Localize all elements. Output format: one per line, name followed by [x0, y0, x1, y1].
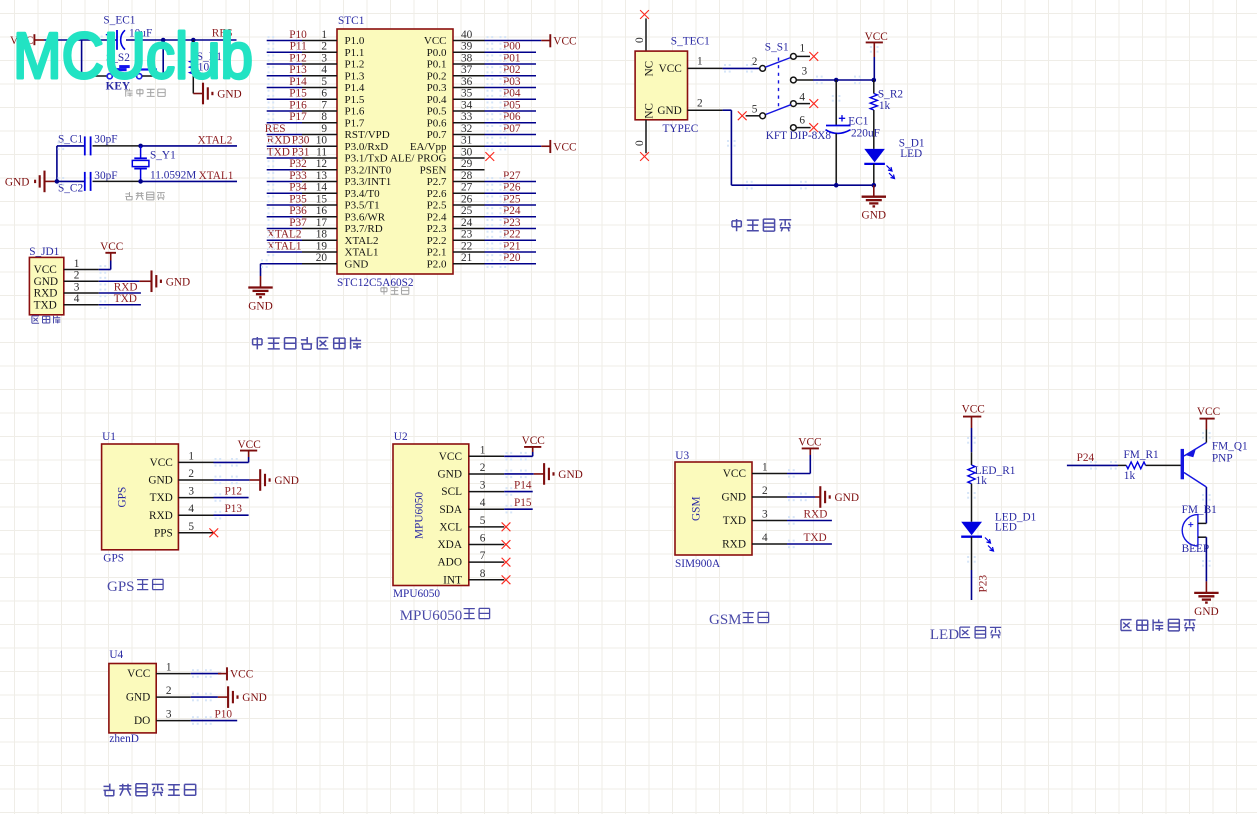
svg-text:VCC: VCC — [962, 404, 985, 416]
svg-text:P2.1: P2.1 — [427, 247, 447, 259]
compile marks (decorative wire check dots) — [58, 36, 1211, 725]
svg-text:EA/Vpp: EA/Vpp — [410, 141, 447, 153]
svg-text:P2.3: P2.3 — [427, 223, 447, 235]
pin 2 (P1.1) of STC1 — [302, 41, 364, 59]
svg-text:20: 20 — [316, 252, 328, 264]
svg-text:MPU6050: MPU6050 — [393, 588, 440, 600]
pin 33 (P0.6) of STC1 — [427, 111, 485, 129]
svg-text:RXD: RXD — [804, 509, 828, 521]
wire — [485, 239, 537, 241]
pin 2 (GND) of U1 — [148, 468, 213, 487]
wire VCC to node — [873, 57, 875, 80]
svg-text:4: 4 — [762, 532, 768, 544]
wire — [267, 63, 302, 65]
wire — [485, 122, 537, 124]
wire — [267, 204, 302, 206]
svg-text:XCL: XCL — [439, 521, 462, 533]
power port VCC (U4) — [226, 667, 228, 680]
no-connect X (pin30) — [485, 152, 494, 161]
pin 17 (P3.7/RD) of STC1 — [302, 217, 383, 235]
power port VCC (S_JD1) — [100, 241, 123, 261]
ground GND (crystal) — [5, 171, 57, 193]
junction node at R2 — [872, 78, 877, 83]
wire buzzer to GND — [1205, 537, 1207, 581]
svg-text:P25: P25 — [503, 193, 521, 205]
svg-text:2: 2 — [321, 41, 327, 53]
svg-text:11: 11 — [316, 146, 327, 158]
svg-text:P1.1: P1.1 — [345, 47, 365, 59]
svg-text:U2: U2 — [394, 431, 408, 443]
svg-text:P0.6: P0.6 — [427, 117, 447, 129]
pin 4 (SDA) of U2 — [439, 497, 504, 516]
svg-text:2: 2 — [166, 685, 172, 697]
svg-text:SCL: SCL — [441, 486, 462, 498]
svg-text:28: 28 — [461, 170, 473, 182]
wire — [267, 169, 302, 171]
svg-text:MPU6050: MPU6050 — [414, 492, 426, 539]
wire pin1 to VCC — [504, 452, 533, 456]
svg-text:EC1: EC1 — [848, 116, 868, 128]
module U3 GSM body — [675, 450, 752, 570]
pin 0 (bottom) of S_TEC1 — [634, 120, 646, 153]
wire pin1 to VCC — [214, 457, 249, 462]
svg-text:19: 19 — [316, 240, 328, 252]
caption 震动检测模块 (vibration detect module) — [104, 784, 115, 796]
svg-text:P1.3: P1.3 — [345, 70, 365, 82]
pin 28 (P2.7) of STC1 — [427, 170, 485, 188]
wire — [485, 263, 537, 265]
wire pin1 to VCC — [191, 673, 222, 675]
wire S_C2 to crystal node XTAL1 — [93, 180, 141, 182]
wire — [485, 63, 537, 65]
wire net XTAL1 — [141, 180, 237, 182]
pin 31 (EA/Vpp) of STC1 — [410, 135, 485, 153]
resistor S_R1 10k — [190, 40, 222, 94]
wire net P14 — [504, 491, 533, 493]
wire to capacitor S_C2 — [57, 180, 85, 182]
wire resistor to transistor base — [1146, 464, 1181, 466]
svg-text:10: 10 — [316, 135, 328, 147]
power port VCC (U3) — [798, 437, 821, 455]
svg-text:7: 7 — [480, 550, 486, 562]
pin 1 (VCC) of U2 — [439, 444, 504, 463]
wire pin40 to VCC — [485, 40, 542, 42]
svg-text:GPS: GPS — [117, 487, 129, 508]
no-connect X (S_S1 pin4) — [809, 99, 818, 108]
svg-text:P3.5/T1: P3.5/T1 — [345, 200, 380, 212]
svg-text:P22: P22 — [503, 229, 521, 241]
svg-text:VCC: VCC — [659, 63, 682, 75]
pin 23 (P2.2) of STC1 — [427, 229, 485, 247]
label 下载口 (download port) — [32, 316, 39, 323]
svg-text:P37: P37 — [289, 217, 307, 229]
buzzer FM_B1 BEEP — [1182, 504, 1217, 555]
junction node ground rail at LED — [872, 183, 877, 188]
svg-text:GSM: GSM — [691, 497, 703, 522]
label 晶振电路 (crystal circuit) — [125, 192, 132, 200]
svg-text:P33: P33 — [289, 170, 307, 182]
junction node ground rail at EC1 — [834, 183, 839, 188]
svg-text:P13: P13 — [225, 503, 243, 515]
svg-text:TXD: TXD — [267, 146, 290, 158]
svg-text:U3: U3 — [675, 450, 689, 462]
svg-text:VCC: VCC — [100, 241, 123, 253]
power port VCC (U2) — [522, 435, 545, 452]
svg-text:FM_R1: FM_R1 — [1124, 449, 1159, 461]
svg-text:P2.6: P2.6 — [427, 188, 447, 200]
svg-text:26: 26 — [461, 193, 473, 205]
wire P24 to resistor — [1067, 464, 1126, 466]
svg-text:P1.7: P1.7 — [345, 117, 365, 129]
op-amp U? none; MCU STC1 body — [337, 15, 453, 289]
svg-text:RXD: RXD — [267, 135, 291, 147]
wire — [267, 145, 302, 147]
wire — [267, 228, 302, 230]
ground GND (U1) — [250, 469, 299, 491]
svg-text:27: 27 — [461, 182, 473, 194]
svg-text:GND: GND — [274, 475, 298, 487]
label 按键复位 (key reset) — [126, 89, 133, 97]
wire — [267, 87, 302, 89]
svg-text:LED: LED — [995, 522, 1017, 534]
svg-text:30: 30 — [461, 146, 473, 158]
svg-text:MCUclub: MCUclub — [13, 19, 253, 92]
pin 39 (P0.0) of STC1 — [427, 41, 485, 59]
ground GND (buzzer) — [1205, 581, 1207, 593]
pin 15 (P3.5/T1) of STC1 — [302, 193, 380, 211]
pin 32 (P0.7) of STC1 — [427, 123, 485, 141]
svg-text:P26: P26 — [503, 182, 521, 194]
module U2 MPU6050 body — [393, 431, 469, 600]
svg-text:1: 1 — [480, 444, 486, 456]
svg-text:P1.5: P1.5 — [345, 94, 365, 106]
transistor FM_Q1 PNP — [1181, 441, 1248, 487]
svg-text:VCC: VCC — [34, 264, 57, 276]
svg-text:39: 39 — [461, 41, 473, 53]
wire — [485, 228, 537, 230]
svg-text:P07: P07 — [503, 123, 521, 135]
svg-text:36: 36 — [461, 76, 473, 88]
svg-text:37: 37 — [461, 64, 473, 76]
svg-text:32: 32 — [461, 123, 473, 135]
crystal S_Y1 11.0592M — [132, 146, 196, 182]
pin 11 (P3.1/TxD) of STC1 — [302, 146, 388, 164]
pin 1 (VCC) of U1 — [150, 450, 214, 469]
pin 5 (XCL) of U2 — [439, 515, 504, 534]
svg-text:8: 8 — [321, 111, 327, 123]
svg-text:P2.0: P2.0 — [427, 258, 447, 270]
pin 3 (TXD) of U1 — [150, 486, 214, 505]
wire resistor to LED — [971, 484, 973, 522]
pin 27 (P2.6) of STC1 — [427, 182, 485, 200]
wire pin31 to VCC — [485, 145, 542, 147]
svg-text:VCC: VCC — [798, 437, 821, 449]
svg-text:P05: P05 — [503, 99, 521, 111]
switch S_S1 KFT DIP-8X8 — [746, 42, 832, 142]
svg-text:22: 22 — [461, 240, 473, 252]
svg-text:P06: P06 — [503, 111, 521, 123]
svg-text:P2.5: P2.5 — [427, 200, 447, 212]
svg-text:GND: GND — [345, 258, 369, 270]
svg-text:XTAL1: XTAL1 — [199, 170, 234, 182]
svg-text:GND: GND — [248, 301, 272, 313]
svg-text:TXD: TXD — [150, 492, 173, 504]
caption GSM模块 (GSM module) — [709, 612, 769, 628]
pin 18 (XTAL2) of STC1 — [302, 229, 378, 247]
svg-text:TXD: TXD — [723, 515, 746, 527]
svg-text:VCC: VCC — [553, 141, 576, 153]
svg-text:40: 40 — [461, 29, 473, 41]
module U1 GPS body — [102, 431, 179, 564]
wire collector to VCC — [1205, 430, 1207, 443]
svg-text:220uF: 220uF — [851, 128, 880, 140]
capacitor S_C2 30pF — [58, 170, 118, 195]
wire — [485, 134, 537, 136]
wire — [267, 134, 302, 136]
svg-text:1: 1 — [762, 462, 768, 474]
svg-text:TXD: TXD — [34, 299, 57, 311]
svg-text:P04: P04 — [503, 88, 521, 100]
svg-text:GND: GND — [657, 105, 681, 117]
junction node XTAL2 — [138, 144, 143, 149]
svg-text:P3.3/INT1: P3.3/INT1 — [345, 176, 392, 188]
svg-text:PSEN: PSEN — [420, 164, 447, 176]
svg-text:TXD: TXD — [114, 293, 137, 305]
svg-text:P0.4: P0.4 — [427, 94, 447, 106]
wire pin1 to VCC — [787, 455, 810, 474]
svg-text:13: 13 — [316, 170, 328, 182]
svg-text:30pF: 30pF — [94, 170, 117, 182]
svg-text:S_Y1: S_Y1 — [150, 150, 176, 162]
wire — [485, 251, 537, 253]
power port VCC (pin40) — [549, 34, 551, 47]
svg-text:5: 5 — [188, 521, 194, 533]
svg-text:P23: P23 — [978, 575, 990, 593]
wire pin2 to GND — [99, 280, 140, 282]
wire ground riser — [56, 146, 58, 182]
resistor FM_R1 1k — [1124, 449, 1159, 482]
wire net P13 — [214, 514, 249, 516]
svg-text:U1: U1 — [102, 431, 116, 443]
svg-text:GND: GND — [558, 469, 582, 481]
svg-text:7: 7 — [321, 99, 327, 111]
svg-text:VCC: VCC — [439, 451, 462, 463]
junction node at S_EC1 / switch — [161, 38, 166, 43]
LED S_D1 — [864, 138, 924, 186]
pin 20 (GND) of STC1 — [302, 252, 368, 270]
pin 29 (PSEN) of STC1 — [420, 158, 485, 176]
junction node XTAL1 — [138, 179, 143, 184]
pin 7 (P1.6) of STC1 — [302, 99, 365, 117]
pin 4 (RXD) of U3 — [722, 532, 787, 551]
svg-text:VCC: VCC — [522, 435, 545, 447]
wire net TXD (U3) — [787, 543, 832, 545]
svg-text:34: 34 — [461, 99, 473, 111]
svg-text:2: 2 — [188, 468, 194, 480]
svg-text:FM_Q1: FM_Q1 — [1212, 441, 1248, 453]
svg-text:VCC: VCC — [865, 31, 888, 43]
svg-text:P3.1/TxD: P3.1/TxD — [345, 153, 388, 165]
power port VCC (reset circuit) — [10, 34, 44, 47]
svg-text:P2.4: P2.4 — [427, 211, 447, 223]
wire — [485, 192, 537, 194]
wire net P10 — [191, 720, 237, 722]
svg-text:GSM: GSM — [709, 612, 742, 628]
wire VCC to resistor — [971, 428, 973, 465]
svg-text:GND: GND — [722, 492, 746, 504]
capacitor S_C1 30pF — [58, 134, 118, 156]
svg-text:18: 18 — [316, 229, 328, 241]
pin 6 (P1.5) of STC1 — [302, 88, 365, 106]
no-connect X (S_S1 pin1) — [809, 52, 818, 61]
wire — [485, 216, 537, 218]
wire — [485, 51, 537, 53]
svg-text:P23: P23 — [503, 217, 521, 229]
svg-text:PNP: PNP — [1212, 452, 1233, 464]
capacitor S_EC1 10uF — [103, 15, 152, 50]
svg-text:GND: GND — [5, 176, 29, 188]
svg-text:8: 8 — [480, 568, 486, 580]
wire — [267, 40, 302, 42]
wire — [267, 110, 302, 112]
svg-text:ALE/ PROG: ALE/ PROG — [390, 153, 447, 165]
pin 2 (GND) of S_JD1 — [34, 270, 99, 288]
svg-text:P24: P24 — [503, 205, 521, 217]
junction node crystal ground — [55, 179, 60, 184]
no-connect X (U1 PPS) — [209, 528, 218, 537]
svg-text:3: 3 — [166, 709, 172, 721]
wire S_EC1 to node RES — [126, 39, 237, 41]
svg-text:P30: P30 — [292, 135, 310, 147]
svg-text:3: 3 — [321, 52, 327, 64]
wire — [267, 216, 302, 218]
wire — [485, 75, 537, 77]
svg-text:NC: NC — [644, 103, 656, 119]
svg-text:S_C2: S_C2 — [58, 183, 83, 195]
wire LED to P23 — [971, 537, 973, 600]
no-connect X (TYPEC top) — [640, 10, 649, 19]
wire net RXD — [99, 292, 141, 294]
pin 24 (P2.3) of STC1 — [427, 217, 485, 235]
svg-text:P11: P11 — [290, 41, 307, 53]
pin 7 (ADO) of U2 — [438, 550, 505, 569]
svg-text:2: 2 — [697, 97, 703, 109]
pin 3 (RXD) of S_JD1 — [34, 281, 99, 299]
svg-text:2: 2 — [74, 270, 80, 282]
svg-text:VCC: VCC — [723, 468, 746, 480]
svg-text:XTAL1: XTAL1 — [345, 247, 379, 259]
wire net P15 — [504, 508, 533, 510]
svg-text:5: 5 — [321, 76, 327, 88]
svg-text:STC1: STC1 — [338, 15, 364, 27]
ground GND (reset resistor) — [193, 83, 241, 105]
wire S_C1 to crystal node XTAL2 — [93, 145, 141, 147]
wire net TXD — [99, 304, 141, 306]
wire switch pin3 to VCC node — [813, 79, 874, 81]
no-connect X (S_S1 pin5) — [738, 111, 747, 120]
svg-text:P0.0: P0.0 — [427, 47, 447, 59]
svg-text:P3.6/WR: P3.6/WR — [345, 211, 386, 223]
svg-text:GND: GND — [34, 276, 58, 288]
svg-text:GND: GND — [242, 692, 266, 704]
ground GND (power circuit) — [873, 185, 875, 197]
wire — [267, 157, 302, 159]
svg-text:S_C1: S_C1 — [58, 134, 83, 146]
pin 5 (PPS) of U1 — [154, 521, 214, 540]
svg-text:21: 21 — [461, 252, 472, 264]
pin 2 (GND) of U3 — [722, 485, 787, 504]
svg-text:3: 3 — [188, 486, 194, 498]
svg-text:DO: DO — [134, 715, 150, 727]
svg-text:VCC: VCC — [230, 669, 253, 681]
svg-text:0: 0 — [634, 140, 646, 146]
pin 10 (P3.0/RxD) of STC1 — [302, 135, 388, 153]
svg-text:P20: P20 — [503, 252, 521, 264]
wire pin1 to switch — [723, 67, 760, 69]
wire — [267, 192, 302, 194]
svg-text:35: 35 — [461, 88, 473, 100]
wire — [485, 98, 537, 100]
no-connect X (U2 pin6) — [502, 540, 511, 549]
pin 1 (P1.0) of STC1 — [302, 29, 365, 47]
svg-text:P14: P14 — [289, 76, 307, 88]
pin 37 (P0.2) of STC1 — [427, 64, 485, 82]
wire pin2 to ground rail — [723, 110, 874, 185]
svg-text:P2.7: P2.7 — [427, 176, 447, 188]
svg-text:RES: RES — [265, 123, 286, 135]
wire to capacitor S_C1 — [57, 145, 85, 147]
no-connect X (TYPEC bottom) — [640, 152, 649, 161]
svg-text:VCC: VCC — [424, 35, 447, 47]
svg-text:16: 16 — [316, 205, 328, 217]
svg-text:15: 15 — [316, 193, 328, 205]
pin 0 (top) of S_TEC1 — [634, 18, 646, 51]
svg-text:P1.4: P1.4 — [345, 82, 365, 94]
ground GND (MCU) — [260, 276, 262, 288]
pin 3 (SCL) of U2 — [441, 480, 504, 499]
pin 3 (P1.2) of STC1 — [302, 52, 364, 70]
svg-text:GND: GND — [1194, 606, 1218, 618]
svg-text:RXD: RXD — [149, 510, 173, 522]
resistor S_R2 1k — [870, 80, 903, 149]
power port VCC (U1) — [238, 439, 261, 457]
pin 2 (GND) of U4 — [126, 685, 191, 704]
svg-text:2: 2 — [480, 462, 486, 474]
svg-text:P17: P17 — [289, 111, 307, 123]
svg-text:P1.2: P1.2 — [345, 59, 365, 71]
wire — [267, 251, 302, 253]
svg-text:1: 1 — [697, 56, 703, 68]
pin 34 (P0.5) of STC1 — [427, 99, 485, 117]
svg-text:P13: P13 — [289, 64, 307, 76]
svg-text:P3.2/INT0: P3.2/INT0 — [345, 164, 392, 176]
svg-text:1: 1 — [800, 43, 806, 55]
svg-text:GND: GND — [438, 469, 462, 481]
svg-text:29: 29 — [461, 158, 473, 170]
svg-text:P31: P31 — [292, 146, 310, 158]
svg-text:LED: LED — [930, 627, 959, 643]
ground GND (S_JD1) — [139, 270, 190, 292]
svg-text:P15: P15 — [289, 88, 307, 100]
no-connect X (U2 pin8) — [502, 575, 511, 584]
svg-text:RXD: RXD — [114, 281, 138, 293]
pin 2 (GND) of U2 — [438, 462, 505, 481]
svg-text:P32: P32 — [289, 158, 307, 170]
wire — [267, 181, 302, 183]
svg-text:6: 6 — [321, 88, 327, 100]
no-connect X (S_S1 pin6) — [809, 123, 818, 132]
svg-text:P36: P36 — [289, 205, 307, 217]
